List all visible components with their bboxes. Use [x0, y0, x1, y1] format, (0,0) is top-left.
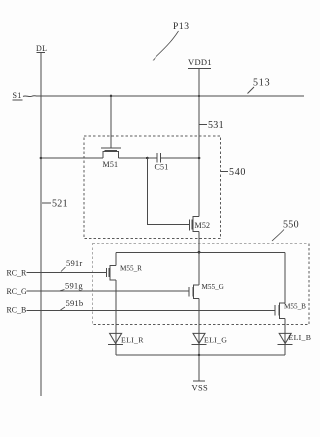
- cathode rail: [116, 354, 285, 356]
- svg-text:ELI_B: ELI_B: [289, 333, 312, 342]
- junction cathode rail: [198, 354, 201, 357]
- scan line S1 label: [13, 91, 23, 100]
- label 591b: [61, 298, 84, 310]
- svg-text:VSS: VSS: [192, 383, 209, 393]
- svg-text:M51: M51: [103, 160, 119, 169]
- label 521: [42, 199, 68, 210]
- junction W1 x VDD: [198, 157, 201, 160]
- label 540: [221, 167, 246, 178]
- wire C51 to VDD line: [161, 157, 199, 159]
- svg-text:521: 521: [52, 199, 68, 210]
- label 531: [200, 120, 224, 131]
- svg-text:DL: DL: [36, 44, 47, 53]
- label 591g: [60, 281, 83, 291]
- M51 gate lead from S1: [110, 95, 113, 98]
- data line DL label: [36, 44, 47, 53]
- wire DL to M51: [41, 157, 103, 159]
- wire M51 to C51: [119, 157, 157, 159]
- drain rail: [116, 251, 285, 253]
- label 550: [272, 220, 299, 242]
- svg-text:591g: 591g: [65, 281, 83, 291]
- wire ELI_R to cathode rail: [115, 333, 117, 355]
- capacitor C51: [155, 153, 169, 172]
- wire M55_G to ELI_G: [198, 298, 200, 333]
- svg-text:P13: P13: [173, 22, 190, 32]
- transistor M51: [101, 95, 121, 169]
- svg-text:550: 550: [283, 220, 299, 231]
- svg-text:VDD1: VDD1: [188, 57, 212, 67]
- M52 channel: [193, 217, 199, 232]
- data line DL wire: [40, 53, 42, 396]
- transistor M55_G: [189, 283, 224, 298]
- svg-text:M55_G: M55_G: [202, 283, 224, 291]
- svg-text:M52: M52: [195, 221, 211, 230]
- wire M55_R to ELI_R: [115, 280, 117, 334]
- svg-text:RC_R: RC_R: [7, 269, 27, 278]
- LED ELI_G: [192, 333, 228, 344]
- ground terminal VSS: [192, 381, 209, 393]
- svg-text:M55_B: M55_B: [284, 303, 306, 311]
- transistor M55_R: [106, 265, 142, 280]
- transistor M52: [190, 217, 211, 232]
- svg-text:M55_R: M55_R: [120, 265, 142, 273]
- wire N1 to M52 gate: [147, 158, 189, 225]
- wire rail to M55_B: [284, 252, 286, 303]
- power terminal VDD1: [188, 57, 212, 69]
- wire ELI_B to cathode rail: [284, 333, 286, 355]
- wire ELI_G to cathode rail: [198, 333, 200, 355]
- M51 channel: [103, 152, 119, 158]
- junction VDD x S1: [198, 95, 201, 98]
- power line VDD vertical wire: [198, 69, 200, 216]
- svg-text:513: 513: [253, 78, 270, 89]
- wire M52 to rail: [198, 231, 200, 252]
- transistor M55_B: [275, 303, 306, 319]
- svg-text:ELI_R: ELI_R: [121, 336, 144, 345]
- scan line S1 wavy leader: [23, 95, 37, 98]
- LED ELI_R: [108, 333, 144, 344]
- LED ELI_B: [278, 333, 312, 345]
- svg-text:591r: 591r: [66, 258, 82, 268]
- control line RC_R: [7, 269, 107, 278]
- svg-text:591b: 591b: [66, 298, 84, 308]
- junction dot DL x wire: [40, 157, 43, 160]
- wire M55_B to ELI_B: [284, 319, 286, 334]
- svg-text:RC_G: RC_G: [7, 287, 27, 296]
- wire rail to M55_R: [115, 252, 117, 265]
- junction node N1: [146, 157, 149, 160]
- svg-text:RC_B: RC_B: [7, 306, 27, 315]
- wire rail to M55_G: [198, 252, 200, 284]
- scan line S1 wire: [37, 95, 304, 97]
- pixel label P13: [153, 22, 190, 61]
- junction M52 x rail: [198, 251, 201, 254]
- M52 gate bar: [189, 220, 191, 231]
- svg-text:ELI_G: ELI_G: [204, 336, 227, 345]
- svg-text:C51: C51: [155, 163, 169, 172]
- control line RC_B: [7, 306, 275, 315]
- driving block box 540: [84, 136, 221, 239]
- svg-text:540: 540: [229, 167, 246, 178]
- label 591r: [61, 258, 82, 272]
- wire to VSS: [198, 355, 200, 381]
- svg-text:531: 531: [208, 120, 224, 131]
- M51 gate bar: [101, 147, 121, 149]
- control line RC_G: [7, 287, 189, 296]
- svg-text:S1: S1: [13, 91, 22, 100]
- label 513: [248, 78, 271, 94]
- selection block box 550: [92, 244, 309, 325]
